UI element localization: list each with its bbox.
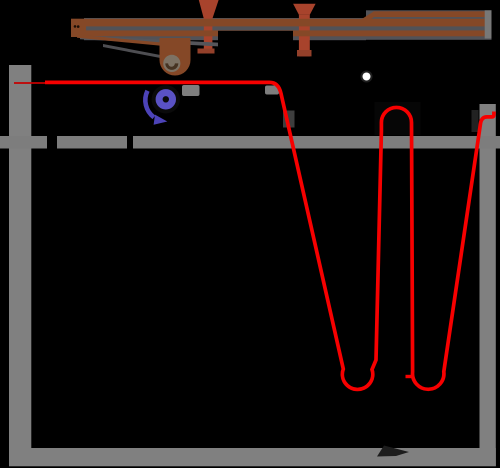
gear hub inner shade — [165, 63, 178, 70]
post 1 funnel top — [199, 0, 219, 19]
beam right end cap — [485, 10, 492, 38]
gear hub — [163, 55, 180, 72]
top sheave block (faint) — [375, 102, 421, 135]
tank left wall — [9, 65, 31, 466]
shallow gray stringer diagonal — [80, 35, 218, 46]
beam lower brown rail — [75, 30, 486, 36]
faint pipe shadow left of right wall — [472, 110, 479, 132]
rope connector between loops — [406, 375, 414, 378]
liquid level dashed line segment 2 — [57, 136, 127, 149]
tank right wall — [480, 104, 496, 466]
beam upper brown rail — [71, 19, 486, 27]
overhead beam gray web (left) — [84, 18, 366, 40]
bolt dots on left tip — [74, 25, 77, 28]
hanger block near bend — [265, 86, 279, 95]
beam top thin rail (right section) — [374, 11, 486, 17]
faint block right of bend — [283, 111, 295, 128]
drain wedge near bottom — [377, 446, 409, 457]
rope thin left tail — [14, 82, 46, 84]
post 1 shaft — [204, 19, 213, 53]
tank bottom wall — [9, 448, 496, 466]
gear housing blob — [160, 38, 191, 76]
post 1 base flare — [198, 49, 215, 54]
overhead beam gray web (right, taller) — [366, 10, 492, 40]
beam left solid tip block — [71, 19, 86, 37]
red rope main path — [45, 82, 494, 389]
rotation arrow head — [154, 115, 168, 125]
black carriage box covering lower rail — [218, 31, 293, 53]
white sheave dot — [361, 71, 373, 83]
steep gray brace diagonal — [103, 44, 163, 59]
post 2 base flare — [297, 50, 312, 56]
drive wheel blue ring — [159, 93, 172, 106]
brown brace diagonal — [77, 35, 165, 47]
liquid level line segment 3 — [133, 136, 500, 149]
post 2 shaft — [299, 15, 310, 57]
beam top rail ramp — [361, 11, 374, 26]
post 2 funnel top — [293, 4, 316, 15]
drive wheel black tyre — [152, 85, 180, 113]
liquid level dashed line segment 1 — [0, 136, 47, 149]
hanger block near wheel — [182, 85, 200, 96]
rotation arrow arc — [145, 91, 154, 118]
